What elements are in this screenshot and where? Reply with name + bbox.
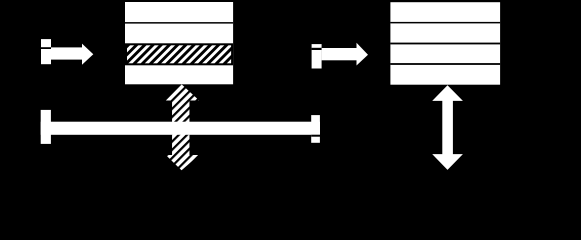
left stack separator line	[125, 22, 233, 24]
hatched active layer	[126, 44, 232, 64]
beam left end cap	[41, 110, 51, 144]
vertical displacement double-arrow (hatched), behind beam	[165, 84, 201, 172]
left input arrow head	[82, 44, 93, 65]
left input arrow outline notch over cap	[41, 47, 51, 49]
right input arrow head	[357, 43, 369, 66]
right input arrow outline notch over cap	[312, 48, 322, 50]
left input arrow shaft	[51, 47, 83, 59]
right stack separator line 2	[390, 43, 500, 45]
right layer stack	[390, 2, 500, 85]
right stack separator line 1	[390, 22, 500, 24]
right stack separator line 3	[390, 63, 500, 65]
right input arrow shaft	[322, 48, 357, 60]
vertical displacement double-arrow (white)	[432, 85, 463, 170]
beam outline notch over right cap	[311, 135, 320, 137]
right input arrow tail cap	[312, 44, 322, 68]
left input arrow tail cap	[41, 39, 51, 64]
beam horizontal bar	[41, 122, 320, 135]
beam right end cap	[311, 115, 320, 143]
left layer stack	[125, 2, 233, 84]
